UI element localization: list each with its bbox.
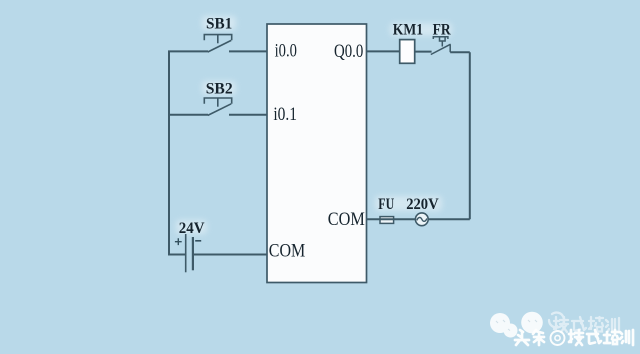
wire: left rail vertical (168, 51, 170, 254)
wire: KM1 to FR contact (415, 51, 432, 53)
fuse FU body fill (380, 217, 394, 224)
svg-text:SB1: SB1 (206, 15, 232, 32)
svg-text:FU: FU (378, 196, 394, 213)
svg-text:Q0.0: Q0.0 (334, 41, 363, 62)
watermark logo blobs (490, 312, 543, 338)
label halos (white glow behind labels) (176, 16, 452, 234)
thermal relay contact FR (431, 37, 451, 55)
fuse FU outline (380, 217, 394, 224)
svg-text:COM: COM (328, 209, 365, 230)
wire: SB2 input line left segment (168, 114, 208, 116)
battery plus sign (175, 238, 182, 245)
wire: AC source to COM output through fuse (367, 218, 416, 220)
svg-text:COM: COM (269, 241, 306, 262)
watermark main text 头条@技成培训 (515, 330, 633, 345)
wire: Q0.0 output to KM1 coil (367, 50, 400, 52)
wire: SB2 input line right segment to i0.1 (229, 114, 267, 116)
svg-text:i0.0: i0.0 (275, 41, 297, 62)
AC source 220V (415, 213, 428, 226)
svg-text:220V: 220V (406, 196, 439, 213)
push button SB1 (204, 35, 231, 52)
svg-text:i0.1: i0.1 (273, 104, 297, 125)
svg-text:KM1: KM1 (393, 22, 423, 39)
svg-text:24V: 24V (179, 220, 205, 237)
wire: battery line left segment (168, 254, 186, 256)
contactor coil KM1 (400, 40, 415, 64)
wire: battery line right segment to COM (193, 254, 267, 256)
push button SB2 (204, 98, 231, 115)
svg-text:SB2: SB2 (206, 80, 233, 97)
battery 24V (186, 234, 193, 272)
wire: right rail to AC source (428, 218, 470, 220)
watermark upper text (faint) (549, 313, 619, 333)
wire: SB1 input line left segment (168, 50, 208, 52)
svg-text:FR: FR (433, 22, 451, 39)
wire: FR to right rail (450, 51, 470, 53)
wire: right rail vertical (469, 52, 471, 219)
battery minus sign (195, 240, 201, 242)
wire: SB1 input line right segment to i0.0 (229, 50, 267, 52)
PLC box U1 (267, 24, 367, 283)
